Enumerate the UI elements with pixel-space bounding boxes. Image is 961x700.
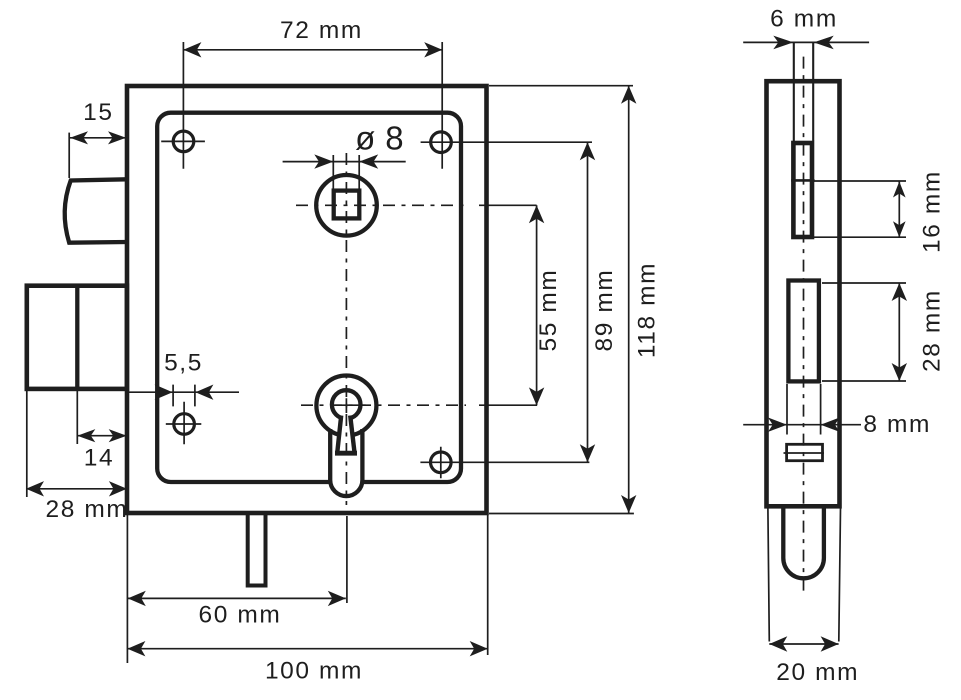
guide block midline [784, 452, 825, 454]
svg-text:100 mm: 100 mm [265, 658, 363, 685]
dimension 14: line and arrowheads [77, 435, 126, 437]
dimension 8mm: extension lines [787, 384, 821, 435]
crosshair screw hole top-left [161, 140, 205, 142]
dimension 16mm: extension lines [814, 181, 906, 237]
screw hole bottom-right [431, 452, 452, 473]
spindle follower circle [316, 175, 377, 236]
key slot white interior [337, 410, 356, 456]
extension lines 20mm (slanted) [768, 509, 841, 642]
dimension 89mm vertical: line and arrowheads [587, 142, 589, 462]
horizontal centerline through keyhole [301, 404, 466, 406]
crosshair screw hole top-right / 89mm top extension line [421, 141, 592, 143]
keyhole crosshair cross [334, 398, 365, 413]
dimension 14: extension lines [27, 391, 78, 497]
dimension 5,5: lines and arrowheads [127, 391, 239, 393]
extension line right case edge below [487, 515, 489, 655]
svg-text:16 mm: 16 mm [919, 170, 946, 253]
follower boss (side) [793, 143, 812, 237]
follower divider line [791, 179, 814, 182]
svg-text:8: 8 [385, 120, 405, 157]
dimension 72mm: extension lines [183, 42, 442, 169]
horizontal centerline through spindle [296, 204, 466, 206]
latch tongue (side, rounded bottom) [783, 507, 824, 578]
dimension 5,5: extension lines [173, 385, 195, 407]
svg-text:6 mm: 6 mm [770, 6, 838, 33]
extension line left case edge below [126, 515, 128, 663]
extension line case top right [489, 85, 633, 87]
deadbolt divider line [75, 286, 79, 389]
lock case inner rounded plate [157, 113, 461, 482]
svg-text:28 mm: 28 mm [46, 496, 129, 523]
dimension 20mm: line and arrowheads [769, 643, 838, 645]
dimension 100mm: line and arrowheads [127, 648, 487, 650]
svg-text:15: 15 [83, 99, 113, 126]
screw hole top-right [431, 132, 452, 153]
dimension 28mm side: line and arrowheads [898, 283, 900, 381]
spindle shaft 6mm (side) [794, 43, 813, 141]
dimension 6mm: line and arrowheads [743, 41, 869, 43]
crosshair screw hole bottom-right / 89mm bottom extension line [420, 447, 589, 479]
dimension 8mm: line and arrowheads [743, 424, 861, 426]
svg-text:118 mm: 118 mm [634, 262, 661, 358]
svg-text:89 mm: 89 mm [591, 269, 618, 352]
svg-text:5,5: 5,5 [164, 350, 203, 377]
svg-text:14: 14 [84, 445, 114, 472]
svg-text:8 mm: 8 mm [863, 411, 931, 438]
keyhole stem with rounded bottom [330, 429, 362, 496]
dimension 28mm: line and arrowheads [26, 488, 127, 490]
key slot right side [350, 416, 354, 454]
dimension 118mm vertical: line and arrowheads [628, 86, 630, 513]
extension line case bottom right [489, 513, 634, 515]
dimension diameter 8: lines and arrowheads [283, 161, 406, 163]
latch bolt (top-left, curved face) [65, 179, 127, 242]
dimension 55mm vertical: line and arrowheads [536, 205, 538, 405]
vertical centerline side view [803, 57, 805, 597]
dimension 15: extension line [68, 133, 70, 178]
key slot left side [337, 416, 341, 454]
dimension 72mm: line and arrowheads [183, 49, 442, 51]
dimension diameter 8: extension lines [333, 155, 359, 189]
key slot bottom edge [335, 451, 357, 456]
main deadbolt (left) [27, 286, 127, 389]
screw hole top-left [173, 131, 194, 152]
spindle square hole 8mm [334, 191, 360, 219]
guide block (side) [787, 444, 823, 460]
dimension 60mm: line and arrowheads [128, 597, 346, 599]
extension line keyhole centre below [346, 516, 348, 603]
keyhole inner circle [332, 390, 361, 419]
svg-text:20 mm: 20 mm [776, 659, 859, 686]
crosshair screw hole bottom-left [166, 402, 202, 444]
dimension 16mm: line and arrowheads [898, 182, 900, 238]
dimension 15: line and arrowheads [70, 137, 126, 139]
screw hole bottom-left [174, 414, 195, 435]
side view body rectangle [767, 81, 840, 506]
svg-text:60 mm: 60 mm [199, 602, 282, 629]
svg-text:28 mm: 28 mm [919, 289, 946, 372]
dimension 28mm side: extension lines [822, 283, 906, 381]
svg-text:55 mm: 55 mm [535, 269, 562, 352]
keyhole stem white mask [330, 425, 362, 496]
key slot (side) [788, 281, 819, 382]
vertical centerline spindle to keyhole [345, 153, 347, 505]
keyhole escutcheon outer circle [316, 376, 376, 436]
svg-text:72 mm: 72 mm [280, 17, 363, 44]
fixing tab below case [248, 513, 266, 586]
svg-text:ø: ø [355, 120, 377, 157]
lock case outer rectangle (front view) [127, 86, 487, 513]
